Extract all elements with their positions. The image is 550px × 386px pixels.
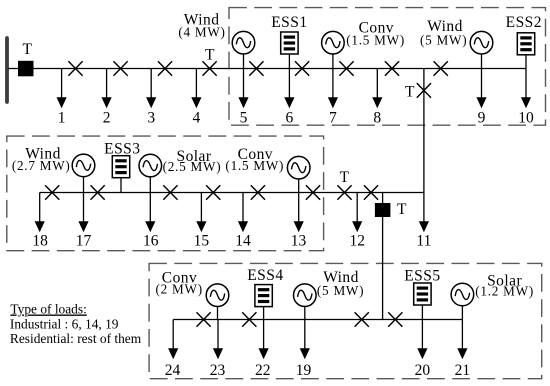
wire gen17 stem [83, 176, 85, 192]
load bus 20 [417, 320, 427, 360]
svg-text:(5 MW): (5 MW) [317, 283, 364, 298]
switch 23-22 [242, 312, 256, 327]
svg-text:20: 20 [415, 362, 431, 379]
battery ESS3 [112, 156, 129, 178]
load bus 24 [168, 320, 178, 360]
wire gen16 stem [149, 177, 151, 193]
switch 8-T [385, 61, 399, 76]
external grid bar [5, 38, 9, 102]
switch 13-T [306, 185, 320, 200]
svg-text:ESS4: ESS4 [247, 267, 283, 284]
wind generator G19 [294, 284, 317, 307]
svg-text:10: 10 [518, 109, 534, 126]
switch 2-3 [114, 61, 128, 76]
switch 19-T2 [355, 312, 369, 327]
load bus 16 [145, 193, 155, 233]
load bus 6 [284, 69, 294, 109]
switch 16-15 [163, 185, 177, 200]
load bus 21 [457, 320, 467, 360]
svg-text:24: 24 [165, 362, 181, 379]
wire gen13 stem [298, 179, 300, 193]
load bus 19 [300, 320, 310, 360]
load bus 3 [146, 69, 156, 109]
wire grid to transformer [9, 68, 19, 70]
dashed zone box 2 (middle left microgrid) [7, 136, 324, 251]
svg-text:ESS5: ESS5 [404, 267, 440, 284]
svg-text:T: T [23, 41, 33, 58]
switch 18-17 [45, 185, 59, 200]
switch 15-14 [206, 185, 220, 200]
switch 24-23 [197, 312, 211, 327]
wind generator G17 [72, 154, 95, 177]
wire mid to bottom tie [382, 193, 384, 320]
wire bottom feeder bus [173, 319, 462, 321]
svg-text:9: 9 [478, 109, 486, 126]
wire gen9 stem [481, 54, 483, 69]
wire middle feeder bus [40, 192, 424, 194]
solar generator G16 [139, 154, 162, 177]
switch 12-T2 [364, 185, 378, 200]
wire gen7 stem [332, 54, 334, 69]
wire ess1 stem [288, 54, 290, 69]
battery ESS2 [517, 33, 534, 55]
load bus 18 [35, 193, 45, 233]
load bus 23 [213, 320, 223, 360]
svg-text:8: 8 [373, 109, 381, 126]
svg-text:(2.5 MW): (2.5 MW) [163, 159, 222, 174]
svg-text:14: 14 [235, 233, 251, 250]
svg-text:19: 19 [296, 362, 312, 379]
load bus 9 [476, 69, 486, 109]
load bus 7 [328, 69, 338, 109]
svg-text:7: 7 [329, 109, 337, 126]
battery ESS4 [255, 285, 272, 307]
load bus 17 [78, 193, 88, 233]
converter G23 [206, 284, 229, 307]
svg-text:3: 3 [147, 109, 155, 126]
switch T-9 [434, 61, 448, 76]
solar generator G21 [451, 283, 474, 306]
battery ESS1 [281, 32, 298, 54]
load bus 8 [372, 69, 382, 109]
wire gen23 stem [217, 306, 219, 319]
svg-text:(1.5 MW): (1.5 MW) [225, 158, 284, 173]
svg-text:(5 MW): (5 MW) [420, 33, 467, 48]
svg-text:18: 18 [32, 233, 48, 250]
switch T2-20 [388, 312, 402, 327]
load bus 14 [238, 193, 248, 233]
wind generator G5 [232, 31, 255, 54]
svg-text:22: 22 [255, 362, 271, 379]
switch 1-2 [68, 61, 82, 76]
wire ess4 stem [263, 307, 265, 320]
load bus 2 [102, 69, 112, 109]
dashed zone box 1 (top right microgrid) [229, 8, 546, 126]
svg-text:(1.5 MW): (1.5 MW) [346, 33, 405, 48]
wind generator G9 [470, 31, 493, 54]
svg-text:T: T [397, 201, 407, 218]
svg-text:4: 4 [193, 109, 201, 126]
svg-text:16: 16 [143, 233, 159, 250]
switch 7-8 [339, 61, 353, 76]
switch 17-ESS3 [91, 185, 105, 200]
svg-text:(4 MW): (4 MW) [178, 24, 225, 39]
svg-text:ESS2: ESS2 [506, 14, 542, 31]
wire ess2 stem [525, 55, 527, 69]
svg-text:12: 12 [349, 233, 365, 250]
wire ess5 stem [421, 305, 423, 320]
svg-text:(2.7 MW): (2.7 MW) [12, 158, 71, 173]
load bus 10 [521, 69, 531, 109]
wire ess3 stem [120, 178, 122, 193]
wire tie feeder top to mid [423, 69, 425, 193]
load bus 4 [191, 69, 201, 109]
svg-text:21: 21 [455, 362, 471, 379]
svg-text:5: 5 [240, 109, 248, 126]
switch 3-4 [158, 61, 172, 76]
svg-text:Industrial : 6, 14, 19: Industrial : 6, 14, 19 [10, 317, 119, 332]
svg-text:15: 15 [194, 233, 210, 250]
svg-text:23: 23 [210, 362, 226, 379]
transformer switch 4-5 [203, 61, 217, 76]
load bus 1 [57, 69, 67, 109]
dashed zone box 3 (bottom microgrid) [149, 263, 542, 378]
wire gen5 stem [243, 54, 245, 69]
svg-text:6: 6 [286, 109, 294, 126]
svg-text:T: T [405, 83, 415, 100]
svg-text:11: 11 [416, 233, 431, 250]
wire top feeder bus [34, 68, 527, 70]
switch 14-13 [251, 185, 265, 200]
svg-text:(2 MW): (2 MW) [156, 281, 203, 296]
load bus 11 [419, 193, 429, 233]
svg-text:Type of loads:: Type of loads: [10, 302, 86, 317]
converter G7 [322, 31, 345, 54]
svg-text:2: 2 [103, 109, 111, 126]
load bus 15 [196, 193, 206, 233]
svg-text:T: T [205, 46, 215, 63]
svg-text:ESS3: ESS3 [104, 141, 140, 158]
wire gen21 stem [461, 306, 463, 320]
switch 5-6 [249, 61, 263, 76]
transformer switch on tie [417, 83, 431, 98]
load bus 12 [352, 193, 362, 233]
svg-text:17: 17 [76, 233, 92, 250]
load bus 22 [259, 320, 269, 360]
svg-text:Residential: rest of them: Residential: rest of them [10, 331, 142, 346]
wire gen19 stem [304, 306, 306, 319]
transformer switch mid [337, 185, 351, 200]
svg-text:ESS1: ESS1 [271, 14, 307, 31]
svg-text:13: 13 [291, 233, 307, 250]
switch 6-7 [295, 61, 309, 76]
svg-text:(1.2 MW): (1.2 MW) [475, 283, 534, 298]
transformer T2 (mid-bottom) [375, 203, 391, 217]
load bus 13 [294, 193, 304, 233]
battery ESS5 [414, 283, 431, 305]
svg-text:1: 1 [58, 109, 66, 126]
transformer T (main, top left) [18, 61, 34, 77]
load bus 5 [238, 69, 248, 109]
svg-text:T: T [340, 169, 350, 186]
converter G13 [287, 156, 310, 179]
